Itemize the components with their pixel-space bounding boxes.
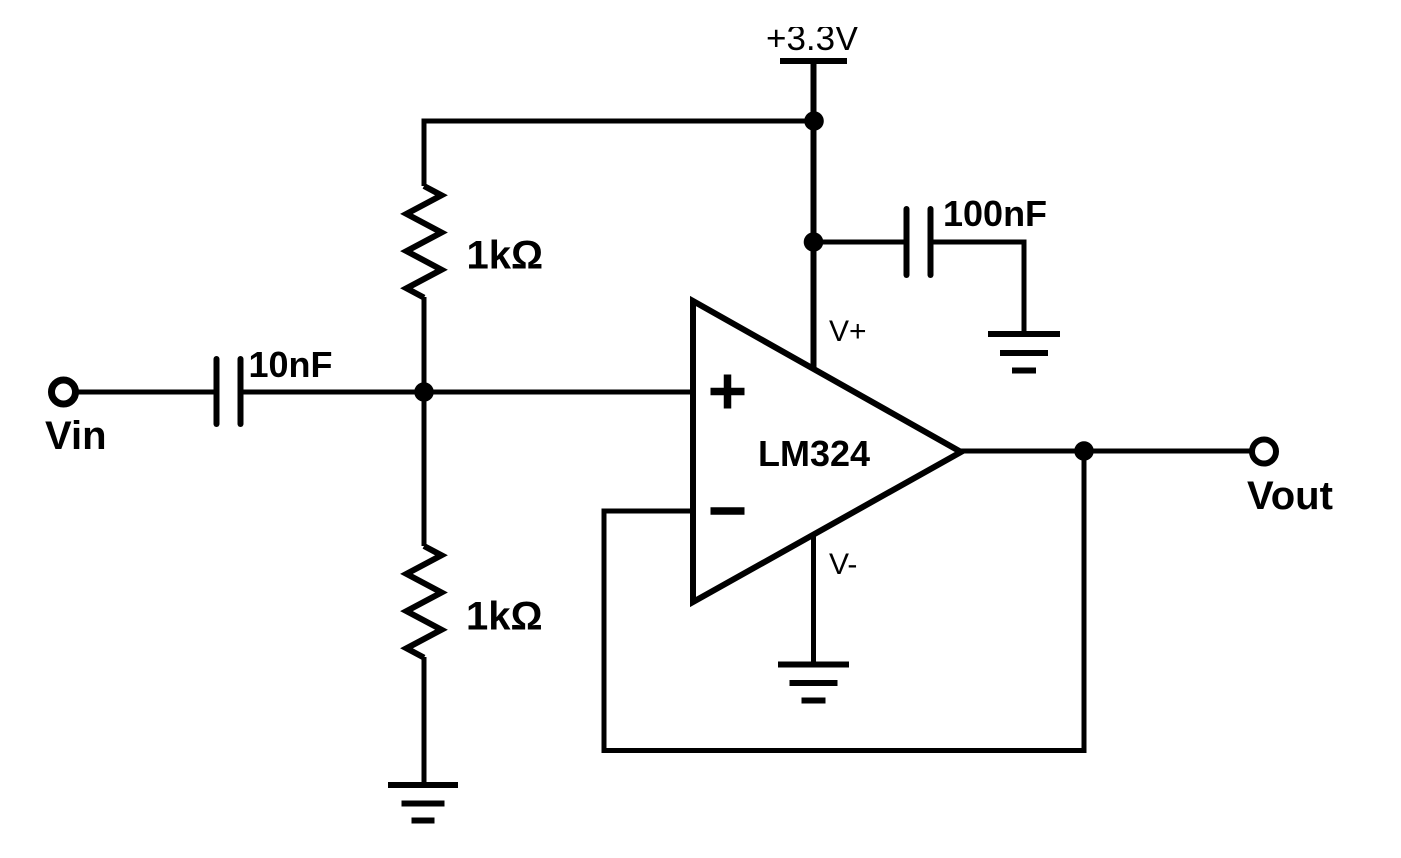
svg-text:V+: V+ bbox=[829, 315, 867, 348]
svg-text:Vin: Vin bbox=[45, 414, 107, 458]
svg-text:100nF: 100nF bbox=[943, 193, 1047, 234]
svg-text:1kΩ: 1kΩ bbox=[466, 595, 543, 639]
svg-text:V-: V- bbox=[829, 548, 857, 581]
svg-text:1kΩ: 1kΩ bbox=[467, 234, 544, 278]
svg-text:Vout: Vout bbox=[1247, 474, 1333, 518]
svg-text:LM324: LM324 bbox=[758, 433, 870, 474]
svg-text:10nF: 10nF bbox=[249, 344, 333, 385]
